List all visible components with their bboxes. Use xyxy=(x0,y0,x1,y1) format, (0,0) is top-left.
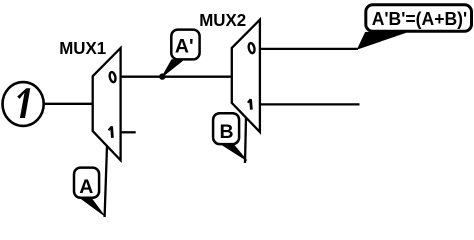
wire: constant-1 to MUX1 left input xyxy=(44,103,93,105)
callout B (MUX2 select signal) xyxy=(213,113,247,160)
wire: MUX2 row-0 line (output A'B') xyxy=(260,48,358,50)
pin label 0 (MUX1 data input 0) xyxy=(109,72,117,83)
callout A' (pointing to node A') xyxy=(162,30,199,77)
constant-1 source node xyxy=(3,82,44,126)
svg-text:A': A' xyxy=(175,36,194,58)
pin label 1 (MUX1 data input 1) xyxy=(109,126,113,137)
svg-text:MUX1: MUX1 xyxy=(59,38,106,58)
mux U1 (MUX1) body xyxy=(93,48,121,160)
wire: MUX1 row-1 stub xyxy=(121,131,136,133)
callout A (MUX1 select signal) xyxy=(74,168,104,216)
wire: MUX1 row-0 line (output A') to MUX2 xyxy=(121,76,232,78)
pin label 0 (MUX2 data input 0) xyxy=(248,43,256,54)
svg-text:MUX2: MUX2 xyxy=(199,10,246,30)
callout A'B'=(A+B)' (pointing to output line) xyxy=(358,5,472,49)
wire: MUX2 select line xyxy=(245,118,246,163)
svg-text:A'B'=(A+B)': A'B'=(A+B)' xyxy=(372,9,468,29)
wire: MUX1 select line xyxy=(105,146,107,217)
svg-text:B: B xyxy=(219,121,233,143)
svg-text:A: A xyxy=(79,176,93,198)
mux U2 (MUX2) body xyxy=(232,20,260,132)
node A' junction dot xyxy=(159,73,165,79)
pin label 1 (MUX2 data input 1) xyxy=(248,99,252,109)
wire: MUX2 row-1 line xyxy=(260,103,360,105)
